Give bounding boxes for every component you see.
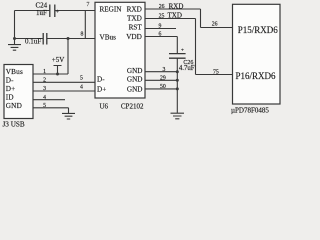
svg-text:7: 7: [87, 2, 90, 8]
svg-text:D-: D-: [6, 76, 14, 84]
svg-text:26: 26: [212, 21, 218, 27]
svg-text:3: 3: [43, 86, 46, 92]
svg-text:4: 4: [43, 95, 46, 101]
svg-text:ID: ID: [6, 94, 14, 102]
svg-text:REGIN: REGIN: [100, 6, 123, 14]
svg-text:5: 5: [43, 103, 46, 109]
svg-text:D+: D+: [6, 85, 16, 93]
svg-text:3: 3: [163, 67, 166, 73]
svg-text:CP2102: CP2102: [121, 102, 144, 110]
svg-text:GND: GND: [127, 76, 143, 84]
svg-text:TXD: TXD: [127, 14, 142, 22]
svg-text:+: +: [181, 47, 184, 53]
svg-text:+5V: +5V: [52, 56, 65, 64]
svg-text:8: 8: [81, 32, 84, 38]
svg-text:9: 9: [159, 23, 162, 29]
svg-text:RST: RST: [129, 23, 143, 31]
svg-text:P15/RXD6: P15/RXD6: [238, 25, 279, 35]
svg-text:GND: GND: [127, 85, 143, 93]
svg-text:TXD: TXD: [168, 11, 182, 19]
svg-text:VBus: VBus: [6, 68, 23, 76]
svg-text:RXD: RXD: [169, 2, 184, 10]
svg-text:25: 25: [159, 13, 165, 19]
svg-text:VDD: VDD: [126, 33, 142, 41]
svg-text:6: 6: [159, 31, 162, 37]
svg-text:2: 2: [43, 77, 46, 83]
svg-text:0.1uF: 0.1uF: [25, 37, 41, 45]
svg-text:GND: GND: [6, 102, 22, 110]
svg-text:26: 26: [159, 4, 165, 10]
svg-text:29: 29: [160, 76, 166, 82]
svg-text:P16/RXD6: P16/RXD6: [236, 71, 277, 81]
svg-text:D-: D-: [97, 76, 105, 84]
svg-text:D+: D+: [97, 85, 106, 93]
svg-text:U6: U6: [100, 102, 109, 110]
svg-text:VBus: VBus: [100, 33, 117, 41]
svg-text:GND: GND: [127, 67, 143, 75]
svg-text:1: 1: [43, 69, 46, 75]
svg-text:4.7uF: 4.7uF: [179, 65, 195, 72]
svg-text:J3 USB: J3 USB: [3, 121, 25, 129]
svg-text:1uF: 1uF: [36, 9, 47, 17]
svg-text:4: 4: [80, 84, 83, 90]
svg-text:75: 75: [213, 70, 219, 76]
svg-text:µPD78F0485: µPD78F0485: [231, 106, 269, 114]
svg-text:5: 5: [80, 75, 83, 81]
svg-text:50: 50: [160, 84, 166, 90]
svg-text:RXD: RXD: [127, 6, 142, 14]
